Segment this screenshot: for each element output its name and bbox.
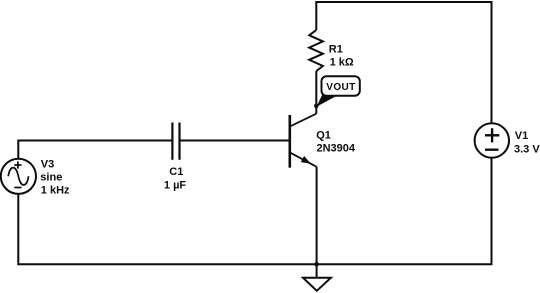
wire collector vertical xyxy=(315,71,317,114)
resistor R1 label xyxy=(329,43,354,68)
svg-text:V3: V3 xyxy=(41,159,54,171)
svg-text:sine: sine xyxy=(40,172,62,184)
svg-text:V1: V1 xyxy=(515,130,528,142)
source V1 xyxy=(475,123,509,157)
svg-text:3.3 V: 3.3 V xyxy=(514,143,540,155)
source V3 xyxy=(1,159,36,194)
svg-text:Q1: Q1 xyxy=(316,130,331,142)
ground junction dot xyxy=(314,262,319,267)
wire capacitor to base xyxy=(180,140,289,142)
transistor Q1 label xyxy=(316,130,356,155)
wire top rail xyxy=(316,2,491,123)
source V3 label xyxy=(40,159,70,197)
ground xyxy=(303,264,331,291)
transistor Q1 xyxy=(290,114,317,168)
source V1 label xyxy=(514,130,540,156)
wire left rail top xyxy=(18,141,171,159)
svg-text:1 kΩ: 1 kΩ xyxy=(330,57,354,69)
wire emitter vertical xyxy=(316,167,318,264)
capacitor C1 xyxy=(172,123,179,160)
node VOUT callout box xyxy=(322,76,360,96)
node VOUT callout tail xyxy=(317,94,341,107)
transistor Q1 emitter arrow xyxy=(301,156,311,164)
svg-text:C1: C1 xyxy=(169,166,183,178)
capacitor C1 label xyxy=(164,166,187,192)
svg-text:1 kHz: 1 kHz xyxy=(41,185,70,197)
wire right rail lower xyxy=(18,158,491,265)
svg-text:1 µF: 1 µF xyxy=(164,180,187,192)
svg-text:2N3904: 2N3904 xyxy=(317,143,356,155)
svg-text:VOUT: VOUT xyxy=(326,82,355,93)
node VOUT collector junction dot xyxy=(314,104,319,109)
resistor R1 xyxy=(309,30,323,71)
svg-text:R1: R1 xyxy=(329,43,343,55)
